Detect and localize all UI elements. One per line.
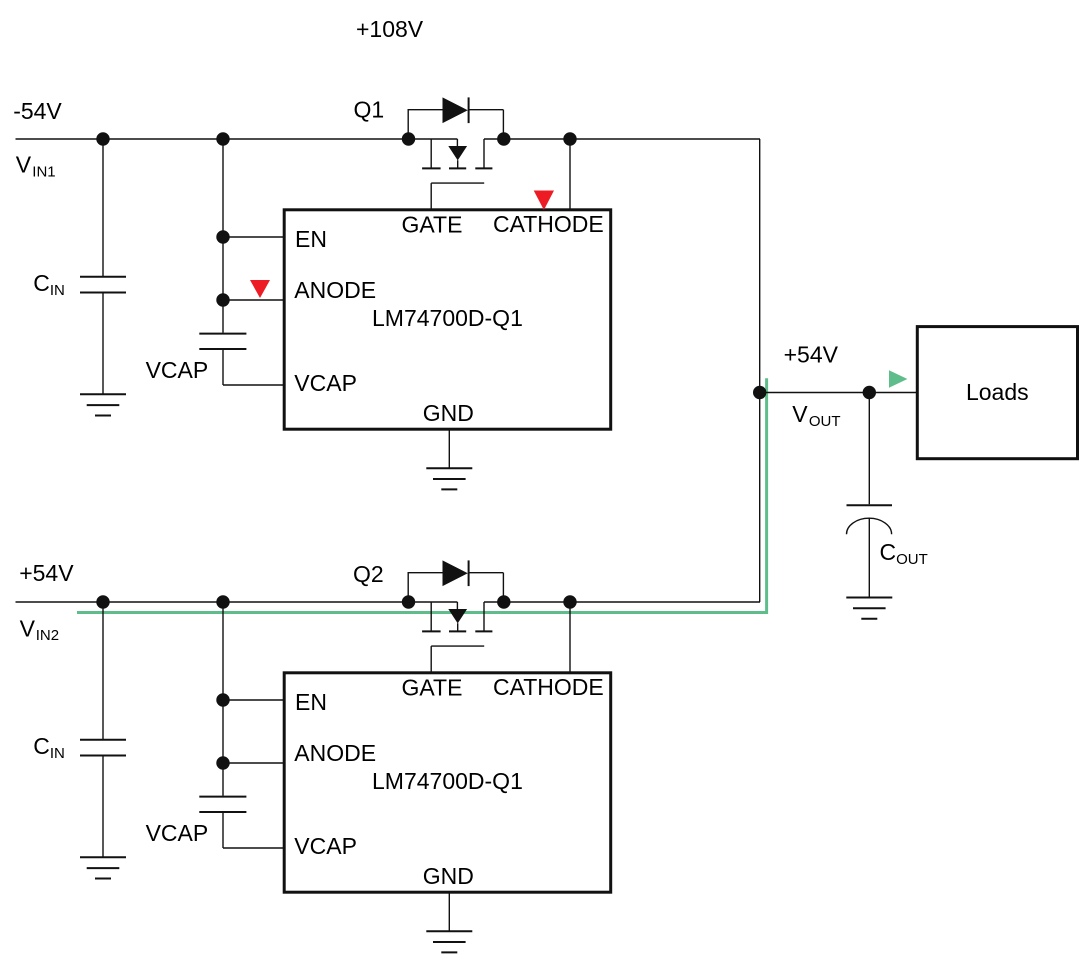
svg-text:V: V — [792, 401, 808, 427]
svg-text:Loads: Loads — [966, 379, 1029, 405]
svg-text:-54V: -54V — [13, 98, 62, 124]
svg-text:Q1: Q1 — [354, 97, 385, 123]
svg-text:IN2: IN2 — [36, 627, 59, 644]
svg-text:OUT: OUT — [809, 413, 841, 430]
svg-text:V: V — [20, 616, 36, 642]
svg-text:V: V — [16, 152, 32, 178]
svg-text:+54V: +54V — [784, 342, 839, 368]
svg-text:+108V: +108V — [356, 16, 424, 42]
svg-text:Q2: Q2 — [353, 561, 384, 587]
svg-text:OUT: OUT — [896, 551, 928, 568]
svg-text:IN1: IN1 — [32, 163, 55, 180]
svg-text:+54V: +54V — [19, 560, 74, 586]
svg-text:C: C — [880, 539, 897, 565]
